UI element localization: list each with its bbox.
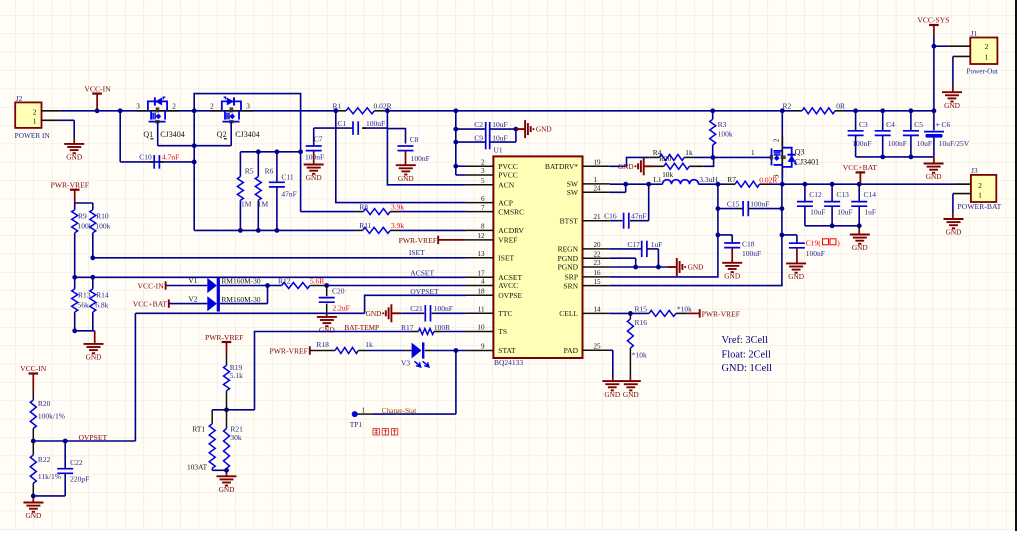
svg-text:GND: GND	[306, 173, 322, 182]
svg-text:C14: C14	[864, 190, 877, 199]
svg-text:BATDRV*: BATDRV*	[545, 162, 578, 171]
ground GND C18	[722, 262, 742, 264]
svg-text:1: 1	[33, 116, 37, 125]
resistor R15	[647, 312, 650, 314]
resistor R20 100k	[32, 391, 34, 400]
svg-text:PGND: PGND	[558, 263, 579, 272]
svg-text:GND: GND	[66, 153, 82, 162]
junction C15 left	[716, 206, 721, 211]
svg-text:11: 11	[478, 306, 485, 314]
capacitor C11	[276, 152, 278, 183]
svg-text:2: 2	[33, 108, 37, 117]
svg-text:100nF: 100nF	[750, 200, 769, 209]
svg-text:GND: GND	[604, 390, 620, 399]
capacitor C18	[718, 234, 732, 236]
svg-text:RT1: RT1	[192, 425, 205, 434]
capacitor C1	[349, 127, 353, 129]
transistor Q2	[210, 110, 252, 112]
svg-text:OVPSET: OVPSET	[78, 433, 107, 442]
svg-text:PWR-VREF: PWR-VREF	[702, 309, 740, 318]
svg-text:RM160M-30: RM160M-30	[222, 277, 261, 286]
svg-text:TS: TS	[498, 327, 507, 336]
svg-text:18: 18	[477, 288, 485, 296]
capacitor C21	[401, 312, 421, 314]
svg-text:1: 1	[978, 190, 982, 199]
junction rail-C11	[275, 149, 280, 154]
svg-text:Q3: Q3	[795, 147, 805, 156]
svg-text:CJ3404: CJ3404	[235, 130, 259, 139]
wire OVPSET column	[134, 313, 136, 441]
svg-text:21: 21	[594, 213, 602, 221]
svg-text:100k: 100k	[95, 221, 110, 230]
svg-text:BQ24133: BQ24133	[494, 358, 523, 367]
svg-text:2: 2	[481, 158, 485, 166]
wire Q1/Q2 gate rail	[157, 122, 159, 146]
wire Q3 drain	[781, 167, 783, 184]
svg-text:U1: U1	[494, 145, 503, 154]
junction C6 rail	[932, 108, 937, 113]
junction C4 bottom	[880, 155, 885, 160]
svg-text:20: 20	[594, 241, 602, 249]
resistor R9	[72, 210, 78, 233]
pin SRN U1 right	[583, 285, 610, 287]
svg-text:C10: C10	[139, 153, 152, 162]
ground GND C3-C6	[924, 163, 944, 165]
svg-text:R14: R14	[96, 291, 109, 300]
junction rail-vert	[298, 149, 303, 154]
svg-text:3.3uH: 3.3uH	[699, 175, 718, 184]
svg-text:2: 2	[210, 102, 214, 110]
wire ACSET row	[75, 276, 466, 278]
wire ACN vertical	[387, 111, 466, 185]
wire C3-C6 bottom rail	[856, 156, 934, 158]
wire AVCC row	[327, 285, 466, 287]
svg-text:POWER-BAT: POWER-BAT	[957, 202, 1001, 211]
wire BAT rail	[782, 183, 971, 185]
pin PGND U1 right	[583, 257, 610, 259]
junction C18 tap	[716, 233, 721, 238]
svg-text:SRP: SRP	[565, 273, 578, 282]
wire STAT row	[432, 350, 466, 352]
svg-text:GND: GND	[852, 243, 868, 252]
svg-text:J3: J3	[971, 166, 978, 175]
svg-text:R7: R7	[727, 175, 736, 184]
wire C12-C14 bottom rail	[805, 225, 859, 227]
junction Q3 rail	[780, 108, 785, 113]
resistor R7	[727, 183, 735, 185]
svg-text:R11: R11	[359, 221, 371, 230]
capacitor C14	[858, 184, 860, 201]
svg-text:100nF: 100nF	[305, 153, 324, 162]
svg-text:R20: R20	[38, 399, 51, 408]
ground GND J3	[944, 218, 964, 220]
svg-text:OVPSE: OVPSE	[498, 291, 522, 300]
junction SW C16	[646, 182, 651, 187]
thermistor RT1	[211, 410, 213, 424]
resistor R19	[226, 354, 228, 366]
wire C10 branch	[119, 111, 121, 162]
svg-text:Vref: 3Cell: Vref: 3Cell	[722, 335, 769, 346]
svg-text:3: 3	[246, 102, 250, 110]
junction rail-R6	[256, 149, 261, 154]
svg-text:C19(: C19(	[806, 238, 822, 247]
svg-text:C1: C1	[338, 119, 347, 128]
junction R13 bottom	[72, 328, 77, 333]
svg-text:1M: 1M	[241, 199, 252, 208]
capacitor C5	[910, 111, 912, 131]
svg-text:PWR-VREF: PWR-VREF	[51, 180, 89, 189]
junction diode node	[265, 283, 270, 288]
svg-text:GND: GND	[366, 309, 382, 318]
svg-text:1: 1	[362, 406, 366, 414]
wire CMSRC row	[301, 211, 356, 213]
pin CMSRC U1 left	[466, 211, 494, 213]
svg-text:SW: SW	[567, 188, 579, 197]
junction R3 rail	[710, 108, 715, 113]
svg-text:Q2: Q2	[217, 130, 227, 139]
svg-text:GND: GND	[688, 263, 704, 272]
wire ACDRV row	[194, 229, 356, 231]
svg-text:16: 16	[594, 269, 602, 277]
svg-text:10k: 10k	[662, 170, 673, 179]
wire C9 row	[456, 141, 486, 143]
capacitor C17	[610, 248, 639, 250]
svg-text:1: 1	[594, 176, 598, 184]
svg-text:BTST: BTST	[560, 216, 579, 225]
junction L1R7 node	[716, 182, 721, 187]
wire OVPSET row	[365, 295, 466, 313]
svg-text:5.6R: 5.6R	[310, 277, 324, 286]
junction RT1 bottom	[224, 468, 229, 473]
ground GND C12-C14	[850, 234, 870, 236]
svg-text:R5: R5	[245, 167, 254, 176]
ground GND R13R14	[84, 343, 104, 345]
svg-text:100nF: 100nF	[366, 119, 385, 128]
capacitor C2	[485, 122, 487, 136]
transistor Q1	[137, 110, 179, 112]
svg-text:10uF: 10uF	[810, 208, 825, 217]
test point TP1	[352, 411, 358, 417]
svg-text:1k: 1k	[365, 340, 373, 349]
svg-text:10: 10	[477, 324, 485, 332]
svg-text:ISET: ISET	[498, 254, 514, 263]
pin VREF U1 left	[466, 239, 494, 241]
svg-text:PGND: PGND	[558, 254, 579, 263]
resistor R12	[268, 285, 282, 287]
junction R20 bottom	[31, 439, 36, 444]
wire J2 pin1 to GND	[61, 119, 74, 121]
wire BATDRV	[610, 165, 627, 167]
svg-text:STAT: STAT	[498, 346, 516, 355]
junction C4 rail	[880, 108, 885, 113]
junction C5 bottom	[909, 155, 914, 160]
resistor R1	[337, 110, 346, 112]
svg-text:C17: C17	[627, 240, 640, 249]
diode V1 RM160M-30	[207, 278, 217, 293]
pin ACN U1 left	[466, 184, 494, 186]
wire V1V2 cathode	[220, 285, 268, 287]
resistor R11	[356, 229, 363, 231]
svg-text:C4: C4	[886, 120, 895, 129]
svg-text:ACSET: ACSET	[410, 269, 434, 278]
svg-text:GND: GND	[25, 511, 41, 520]
svg-text:*10k: *10k	[677, 304, 692, 313]
svg-text:2: 2	[773, 138, 781, 142]
svg-text:30k: 30k	[230, 433, 242, 442]
wire SW row	[610, 183, 663, 185]
junction R3R4 node	[711, 155, 716, 160]
junction gate rail	[192, 143, 197, 148]
pin PVCC U1 left	[466, 174, 494, 176]
junction C14 bottom	[857, 223, 862, 228]
junction C13 rail	[830, 182, 835, 187]
svg-text:100k: 100k	[718, 130, 733, 139]
svg-text:R17: R17	[401, 323, 414, 332]
pin PVCC U1 left	[466, 165, 494, 167]
pin TS U1 left	[466, 331, 494, 333]
wire Q3 source	[781, 111, 783, 148]
svg-text:C20: C20	[332, 287, 345, 296]
junction J1 branch	[932, 44, 937, 49]
junction C11 bottom	[275, 228, 280, 233]
svg-text:R10: R10	[96, 211, 109, 220]
svg-text:Charge-Stat: Charge-Stat	[382, 406, 417, 415]
wire C17 to PGND	[657, 249, 659, 267]
svg-text:6.8k: 6.8k	[95, 300, 108, 309]
wire PGND23	[610, 266, 668, 268]
svg-text:VCC-IN: VCC-IN	[20, 364, 47, 373]
junction PVCC rail	[453, 108, 458, 113]
svg-text:CJ3404: CJ3404	[160, 130, 184, 139]
wire PGND22	[610, 257, 636, 259]
svg-text:L1: L1	[653, 175, 662, 184]
junction R19 node	[224, 407, 229, 412]
svg-text:56k: 56k	[78, 300, 90, 309]
junction C15 right	[780, 206, 785, 211]
svg-text:VREF: VREF	[498, 236, 517, 245]
pin PGND U1 right	[583, 266, 610, 268]
svg-text:PWR-VREF: PWR-VREF	[269, 346, 307, 355]
svg-text:PAD: PAD	[564, 346, 579, 355]
svg-text:C11: C11	[281, 172, 293, 181]
svg-text:R6: R6	[265, 167, 274, 176]
svg-text:5.1k: 5.1k	[230, 371, 243, 380]
pin J2-1	[42, 119, 61, 121]
junction C9 left	[453, 140, 458, 145]
svg-text:GND: GND	[788, 272, 804, 281]
wire C2C9 to GND	[515, 129, 517, 142]
svg-text:GND: GND	[398, 174, 414, 183]
capacitor C15	[718, 208, 738, 210]
svg-text:10uF: 10uF	[917, 139, 932, 148]
ground GND PGND	[668, 266, 677, 268]
svg-text:24: 24	[594, 185, 602, 193]
svg-text:PWR-VREF: PWR-VREF	[399, 236, 437, 245]
resistor R5	[239, 152, 241, 177]
wire drain top bar	[194, 94, 300, 212]
svg-text:C22: C22	[70, 458, 83, 467]
text chinese note	[373, 429, 398, 435]
junction C10 right	[192, 160, 197, 165]
capacitor C9	[485, 135, 487, 149]
svg-text:GND: GND	[944, 101, 960, 110]
svg-text:17: 17	[477, 270, 485, 278]
svg-text:15: 15	[594, 278, 602, 286]
svg-text:100nF: 100nF	[434, 304, 453, 313]
wire C1 row	[314, 127, 349, 129]
svg-text:100nF: 100nF	[411, 154, 430, 163]
svg-text:AVCC: AVCC	[498, 281, 518, 290]
capacitor C7	[313, 128, 315, 146]
svg-text:R15: R15	[635, 304, 648, 313]
wire R9R10 top	[75, 202, 93, 204]
pin CELL U1 right	[583, 312, 610, 314]
junction C3 rail	[853, 108, 858, 113]
pin J2-2	[42, 110, 61, 112]
svg-text:1uF: 1uF	[864, 208, 876, 217]
junction C14 rail	[857, 182, 862, 187]
svg-text:GND: GND	[219, 485, 235, 494]
svg-text:PVCC: PVCC	[498, 171, 518, 180]
wire ISET row	[93, 257, 466, 259]
svg-text:Power-Out: Power-Out	[966, 67, 997, 75]
wire R22 bottom	[33, 495, 65, 497]
pin ACDRV U1 left	[466, 229, 494, 231]
svg-text:10uF: 10uF	[492, 133, 507, 142]
capacitor C13	[831, 184, 833, 201]
resistor R16	[629, 313, 631, 319]
svg-text:2: 2	[985, 42, 989, 51]
svg-text:C21: C21	[410, 304, 423, 313]
wire CELL row	[610, 312, 647, 314]
junction R6 bottom	[256, 228, 261, 233]
junction R12 C20	[324, 283, 329, 288]
svg-text:C13: C13	[836, 190, 849, 199]
svg-text:R16: R16	[635, 318, 648, 327]
svg-text:1: 1	[985, 53, 989, 62]
resistor R18	[335, 348, 358, 354]
resistor R2	[793, 110, 802, 112]
svg-text:GND: GND	[536, 125, 552, 134]
capacitor C10	[150, 161, 154, 163]
junction C2 right	[514, 127, 519, 132]
svg-text:8: 8	[481, 223, 485, 231]
pin BATDRV* U1 right	[583, 165, 610, 167]
svg-text:GND: GND	[618, 162, 634, 171]
wire RT1 bottom	[212, 469, 226, 471]
junction CELL	[628, 311, 633, 316]
capacitor C19	[782, 234, 797, 236]
svg-text:14: 14	[594, 306, 602, 314]
resistor R22	[32, 441, 34, 455]
junction Q3 drain	[780, 182, 785, 187]
svg-text:6: 6	[481, 195, 485, 203]
svg-text:VCC+BAT: VCC+BAT	[133, 300, 168, 309]
pin SW U1 right	[583, 183, 610, 185]
pin J3-1	[953, 193, 971, 195]
pin TTC U1 left	[466, 312, 494, 314]
pin ISET U1 left	[466, 257, 494, 259]
svg-text:C2: C2	[474, 120, 483, 129]
junction PGND22	[633, 265, 638, 270]
svg-text:2.2uF: 2.2uF	[333, 304, 350, 313]
ground GND C21	[390, 304, 392, 322]
diode V1V2 cathode bar	[217, 278, 220, 312]
svg-text:19: 19	[594, 159, 602, 167]
capacitor C16	[610, 220, 620, 222]
wire R5R6C11 top rail	[240, 151, 300, 153]
pin REGN U1 right	[583, 248, 610, 250]
svg-text:3: 3	[136, 102, 140, 110]
svg-text:R12: R12	[278, 277, 291, 286]
junction C10 left	[118, 108, 123, 113]
wire L1 to R7	[699, 183, 728, 185]
connector J3	[971, 175, 996, 202]
svg-text:V3: V3	[401, 358, 410, 367]
svg-text:GND: GND	[926, 172, 942, 181]
svg-text:0.02R: 0.02R	[759, 175, 777, 184]
capacitor C22	[64, 441, 66, 469]
pin J1-2	[934, 45, 949, 47]
junction C12 rail	[803, 182, 808, 187]
resistor R8	[356, 211, 364, 213]
resistor R3	[712, 111, 714, 120]
svg-text:Q1: Q1	[143, 130, 153, 139]
svg-text:VCC-SYS: VCC-SYS	[917, 16, 949, 25]
svg-text:1uF: 1uF	[651, 240, 663, 249]
svg-text:4.7nF: 4.7nF	[162, 153, 179, 162]
power port PWR-VREF R15	[687, 312, 699, 314]
svg-text:CMSRC: CMSRC	[498, 207, 524, 216]
pin J3-2	[955, 183, 971, 185]
resistor R10	[90, 210, 96, 233]
ground GND J2	[64, 143, 84, 145]
svg-text:10uF/25V: 10uF/25V	[939, 139, 970, 148]
svg-text:*10k: *10k	[632, 351, 647, 360]
svg-text:25: 25	[594, 343, 602, 351]
svg-text:47nF: 47nF	[281, 190, 296, 199]
ground GND PAD	[602, 380, 622, 382]
resistor R17	[411, 331, 418, 333]
pin PAD U1 right	[583, 349, 610, 351]
svg-text:V2: V2	[188, 294, 197, 303]
svg-text:CELL: CELL	[559, 309, 578, 318]
wire TS row	[255, 332, 412, 410]
svg-text:GND: GND	[319, 326, 335, 335]
op-amp U1 BQ24133 body	[493, 156, 582, 358]
svg-text:TTC: TTC	[498, 309, 512, 318]
svg-text:3.9k: 3.9k	[391, 221, 404, 230]
svg-text:13: 13	[477, 250, 485, 258]
svg-text:ISET: ISET	[409, 248, 425, 257]
svg-text:22: 22	[594, 250, 602, 258]
svg-text:ACP: ACP	[498, 198, 513, 207]
junction PVCC pin2	[453, 164, 458, 169]
pin OVPSE U1 left	[466, 294, 494, 296]
svg-text:100R: 100R	[434, 323, 450, 332]
pin ACP U1 left	[466, 202, 494, 204]
resistor R4	[650, 156, 660, 158]
svg-text:220pF: 220pF	[70, 475, 89, 484]
svg-text:R8: R8	[359, 203, 368, 212]
connector J2	[15, 102, 41, 128]
junction R1 left	[333, 108, 338, 113]
svg-text:1k: 1k	[685, 148, 693, 157]
ground GND C7	[304, 164, 324, 166]
svg-text:Float: 2Cell: Float: 2Cell	[722, 350, 771, 361]
svg-text:R18: R18	[316, 340, 329, 349]
pin BTST U1 right	[583, 220, 610, 222]
